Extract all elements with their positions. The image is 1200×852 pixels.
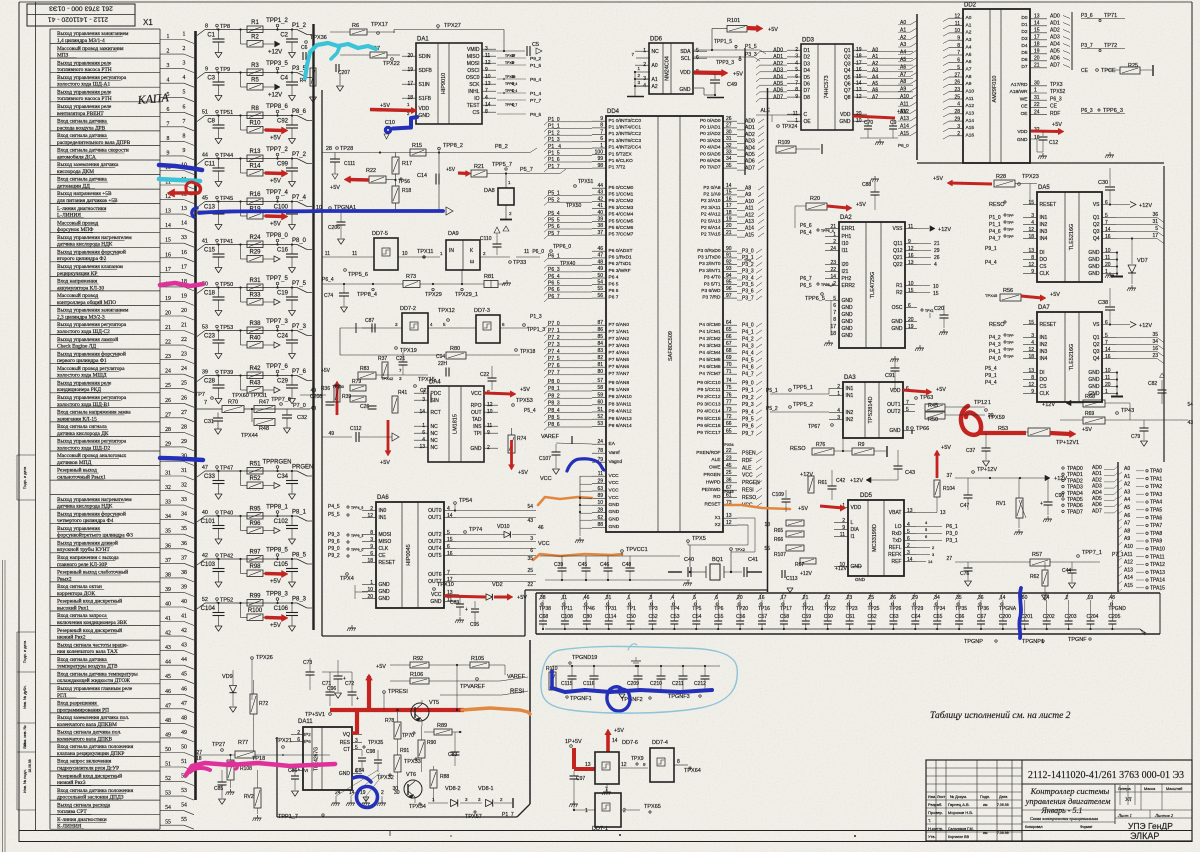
svg-text:9: 9 [1031, 269, 1034, 275]
svg-text:20: 20 [908, 317, 914, 323]
svg-text:VAREF: VAREF [541, 434, 560, 440]
svg-text:9: 9 [1031, 389, 1034, 395]
svg-text:1: 1 [1105, 269, 1108, 275]
svg-text:Q3: Q3 [844, 61, 851, 67]
svg-text:Q1: Q1 [844, 48, 851, 54]
svg-text:43: 43 [181, 643, 187, 649]
svg-text:6: 6 [1105, 200, 1108, 206]
svg-text:Q2: Q2 [1093, 222, 1100, 228]
svg-text:GND: GND [1088, 370, 1100, 376]
svg-text:TPA7: TPA7 [1150, 523, 1162, 529]
svg-text:TP26: TP26 [889, 606, 901, 612]
svg-text:P2 3/A11: P2 3/A11 [701, 205, 721, 211]
svg-text:25: 25 [954, 94, 960, 100]
svg-text:AD0: AD0 [745, 119, 755, 125]
svg-text:D4: D4 [1021, 43, 1027, 49]
IC DD6 NM24C04 [649, 43, 693, 94]
svg-text:P1_0: P1_0 [548, 117, 560, 123]
svg-text:VS: VS [1093, 322, 1100, 328]
svg-text:A2: A2 [966, 30, 972, 36]
svg-text:TPX60 TPX31: TPX60 TPX31 [232, 393, 267, 399]
svg-text:TPA12: TPA12 [1150, 562, 1165, 568]
svg-text:6: 6 [183, 104, 186, 110]
svg-text:P0 7/AD7: P0 7/AD7 [700, 165, 721, 171]
svg-text:12: 12 [954, 14, 960, 20]
svg-text:4: 4 [934, 262, 937, 268]
svg-text:P4 1/CM1: P4 1/CM1 [699, 329, 721, 335]
svg-text:TP16: TP16 [758, 606, 770, 612]
svg-text:+5V: +5V [733, 72, 743, 78]
ladder bus [312, 24, 314, 630]
svg-text:TPP7_6: TPP7_6 [266, 364, 288, 370]
svg-text:P1 5/T2EX: P1 5/T2EX [609, 151, 633, 157]
svg-text:P7_2: P7_2 [548, 335, 560, 341]
IC DA5 TLE5216G [1037, 192, 1102, 282]
RC filter group TP39 [197, 376, 205, 382]
svg-text:14: 14 [181, 221, 187, 227]
svg-text:P4_2: P4_2 [742, 337, 754, 343]
svg-text:R95: R95 [249, 507, 261, 513]
svg-text:TP31: TP31 [605, 606, 617, 612]
svg-text:P9 7/CC17: P9 7/CC17 [697, 430, 721, 436]
svg-text:VCC: VCC [609, 495, 620, 501]
svg-text:TPX29_1: TPX29_1 [455, 292, 478, 298]
svg-text:12: 12 [1028, 347, 1034, 353]
svg-text:P1_6: P1_6 [548, 157, 560, 163]
svg-text:P6 7: P6 7 [609, 295, 619, 301]
svg-text:I20: I20 [842, 262, 849, 268]
svg-text:P7_6: P7_6 [292, 369, 307, 375]
svg-text:C53: C53 [670, 614, 679, 620]
svg-text:A14: A14 [900, 124, 909, 130]
svg-text:P7_0: P7_0 [548, 321, 560, 327]
cyan marker row 11 [159, 179, 200, 181]
svg-text:TPX22: TPX22 [383, 61, 400, 67]
svg-text:RV2: RV2 [244, 794, 254, 800]
svg-text:Выход управления регулятора: Выход управления регулятора [57, 395, 127, 401]
svg-text:DD3: DD3 [802, 38, 815, 44]
svg-text:Массовый провод аналоговых: Массовый провод аналоговых [57, 452, 127, 459]
svg-text:TPX26: TPX26 [256, 655, 273, 661]
svg-text:TPX2: TPX2 [735, 547, 746, 552]
svg-text:TPP5_2: TPP5_2 [793, 402, 813, 408]
svg-text:TPX40: TPX40 [560, 261, 576, 267]
svg-text:PE/SWD: PE/SWD [702, 487, 721, 493]
svg-text:Контроллер системы: Контроллер системы [1030, 786, 1110, 796]
svg-text:P8 5/AN13: P8 5/AN13 [609, 416, 633, 422]
svg-text:C63: C63 [889, 614, 898, 620]
svg-text:TP33: TP33 [513, 260, 526, 266]
svg-text:51: 51 [181, 759, 187, 765]
svg-text:TPX65: TPX65 [644, 804, 661, 810]
svg-text:12: 12 [621, 762, 627, 768]
svg-text:C29: C29 [277, 379, 289, 385]
svg-text:TPX17: TPX17 [371, 22, 388, 28]
svg-text:Инв. № дубл.: Инв. № дубл. [23, 685, 27, 709]
svg-text:1: 1 [988, 400, 991, 406]
svg-text:A2: A2 [872, 61, 878, 67]
svg-text:PH2: PH2 [842, 276, 852, 282]
svg-text:43: 43 [165, 645, 171, 651]
svg-text:33: 33 [181, 235, 187, 241]
svg-text:AD4: AD4 [773, 74, 783, 80]
svg-text:P9_0: P9_0 [328, 546, 340, 552]
svg-text:C38: C38 [1098, 300, 1108, 306]
svg-text:C114: C114 [605, 614, 617, 620]
svg-text:40: 40 [181, 599, 187, 605]
svg-text:DA11: DA11 [298, 719, 313, 725]
svg-text:CT: CT [343, 747, 350, 753]
svg-text:A8: A8 [900, 79, 906, 85]
svg-text:P3 0/RxD0: P3 0/RxD0 [697, 248, 721, 254]
svg-text:TPP8_5: TPP8_5 [266, 548, 288, 554]
svg-text:9: 9 [957, 36, 960, 42]
svg-text:P6 1/RxD1: P6 1/RxD1 [609, 255, 633, 261]
svg-text:50: 50 [181, 745, 187, 751]
red marker row 12 with loop [172, 184, 200, 193]
svg-text:54: 54 [1187, 402, 1193, 408]
svg-text:R101: R101 [727, 18, 740, 24]
svg-text:20: 20 [988, 413, 994, 419]
svg-text:C22: C22 [480, 372, 489, 378]
svg-text:IN2: IN2 [1040, 342, 1048, 348]
svg-text:R77: R77 [238, 740, 248, 746]
svg-text:P6_4: P6_4 [322, 277, 334, 283]
svg-text:NC: NC [431, 445, 439, 451]
svg-text:TP53: TP53 [220, 325, 233, 331]
svg-text:TPA10: TPA10 [1150, 547, 1165, 553]
svg-text:Вход запрос включения: Вход запрос включения [57, 759, 112, 765]
svg-text:C10: C10 [385, 120, 395, 126]
svg-text:P6_7: P6_7 [548, 294, 560, 300]
svg-text:C28: C28 [204, 379, 216, 385]
svg-text:УПЭ ГенДР: УПЭ ГенДР [1128, 821, 1173, 831]
svg-text:P3_6: P3_6 [1081, 13, 1093, 19]
svg-text:11: 11 [840, 532, 845, 538]
svg-text:DA7: DA7 [1038, 305, 1050, 311]
svg-text:P4_4: P4_4 [742, 351, 754, 357]
svg-text:TP67: TP67 [808, 424, 820, 430]
svg-text:11: 11 [908, 224, 913, 230]
svg-text:R50: R50 [928, 417, 938, 423]
svg-text:HWPD: HWPD [706, 479, 721, 485]
svg-text:C61: C61 [846, 614, 855, 620]
svg-text:2: 2 [957, 131, 960, 137]
svg-text:P4_7: P4_7 [742, 372, 754, 378]
svg-text:L: L [851, 520, 854, 526]
svg-text:TPP3_5: TPP3_5 [266, 61, 288, 67]
svg-text:SCK: SCK [469, 82, 480, 88]
microcontroller DD4 SAF80C509 [606, 116, 723, 532]
svg-text:TPX42: TPX42 [381, 376, 394, 381]
svg-text:14: 14 [928, 559, 933, 564]
svg-text:TP6: TP6 [714, 606, 723, 612]
svg-text:AM29F010: AM29F010 [992, 76, 998, 103]
svg-text:Корчагин ВВ: Корчагин ВВ [948, 835, 970, 839]
svg-text:R79: R79 [352, 379, 361, 385]
svg-text:TPGND: TPGND [1108, 606, 1126, 612]
svg-text:6: 6 [447, 544, 450, 550]
svg-text:IP2: IP2 [304, 732, 311, 737]
svg-text:TP+5V1: TP+5V1 [305, 712, 325, 718]
svg-text:A12: A12 [745, 212, 754, 218]
svg-text:P5_1: P5_1 [766, 388, 778, 394]
svg-text:TPPRGEN: TPPRGEN [262, 460, 291, 466]
svg-text:PSEN/RDF: PSEN/RDF [696, 450, 720, 456]
svg-text:PRGEN: PRGEN [703, 472, 721, 478]
svg-text:R83: R83 [360, 366, 369, 372]
svg-text:RESO: RESO [989, 202, 1005, 208]
svg-text:P7_6: P7_6 [548, 363, 560, 369]
svg-text:2112 - 1411020 - 41: 2112 - 1411020 - 41 [48, 16, 108, 23]
svg-text:R109: R109 [778, 140, 790, 146]
svg-text:TPP9_0: TPP9_0 [351, 548, 363, 552]
svg-text:10: 10 [933, 284, 939, 290]
svg-text:TP39: TP39 [220, 370, 233, 376]
svg-text:2: 2 [837, 384, 840, 390]
svg-text:Выход заземления датчика пол.: Выход заземления датчика пол. [57, 715, 129, 721]
svg-text:+12V: +12V [938, 227, 951, 233]
svg-text:VCC: VCC [540, 476, 552, 482]
svg-text:P9 5/CC15: P9 5/CC15 [697, 416, 721, 422]
svg-text:P4_6: P4_6 [742, 365, 754, 371]
svg-text:48: 48 [181, 715, 187, 721]
svg-text:A7: A7 [900, 72, 906, 78]
svg-text:TPP1_2: TPP1_2 [266, 18, 288, 24]
svg-text:R51: R51 [249, 462, 261, 468]
svg-text:R36: R36 [321, 386, 330, 392]
svg-text:GND: GND [1088, 384, 1100, 390]
svg-text:RESET: RESET [1040, 202, 1057, 208]
svg-text:GND: GND [1088, 271, 1100, 277]
svg-text:TP20: TP20 [736, 606, 748, 612]
svg-text:RDF: RDF [1050, 111, 1060, 117]
svg-text:3: 3 [530, 536, 533, 542]
svg-text:AD3: AD3 [1092, 484, 1102, 490]
svg-text:A15: A15 [1124, 583, 1133, 589]
svg-text:VS: VS [1093, 202, 1100, 208]
svg-text:44: 44 [202, 153, 208, 159]
svg-text:TP45: TP45 [220, 196, 233, 202]
title block [926, 760, 1192, 841]
svg-text:C80: C80 [583, 614, 592, 620]
svg-text:TPGNA: TPGNA [999, 606, 1017, 612]
svg-text:GND: GND [1088, 264, 1100, 270]
svg-text:Вход сигнала датчика: Вход сигнала датчика [57, 177, 107, 183]
svg-text:A13: A13 [745, 219, 754, 225]
svg-text:48: 48 [165, 718, 171, 724]
svg-text:A1: A1 [872, 54, 878, 60]
svg-text:TPX23: TPX23 [1022, 174, 1039, 180]
svg-text:R24: R24 [249, 235, 261, 241]
svg-text:33: 33 [165, 500, 171, 506]
svg-text:C3: C3 [207, 76, 215, 82]
svg-text:TLE4267G: TLE4267G [314, 747, 320, 771]
svg-text:Разраб.: Разраб. [928, 802, 942, 807]
svg-text:TPX4: TPX4 [340, 576, 354, 582]
svg-text:3: 3 [650, 595, 653, 601]
svg-text:26: 26 [934, 255, 940, 261]
svg-text:Varef: Varef [609, 450, 621, 456]
svg-text:C56: C56 [736, 614, 745, 620]
svg-text:X2: X2 [715, 522, 721, 528]
svg-text:P5_2: P5_2 [766, 406, 778, 412]
svg-text:R16: R16 [249, 192, 261, 198]
svg-text:TPAD6: TPAD6 [1067, 503, 1083, 509]
svg-text:P6_6: P6_6 [548, 287, 560, 293]
IC DA7 TLE5216G [1037, 312, 1102, 402]
svg-text:+5V: +5V [270, 179, 281, 185]
svg-text:22H: 22H [438, 361, 448, 367]
svg-text:MISO: MISO [467, 54, 480, 60]
svg-text:P4 7/CM7: P4 7/CM7 [699, 371, 721, 377]
svg-text:D3: D3 [804, 61, 811, 67]
svg-text:35: 35 [165, 529, 171, 535]
resistor R7 [370, 52, 387, 58]
svg-text:42: 42 [202, 553, 208, 559]
svg-text:Выход управления главным реле: Выход управления главным реле [57, 686, 133, 692]
svg-text:C82: C82 [1148, 381, 1157, 387]
svg-text:P9_7: P9_7 [742, 431, 754, 437]
svg-text:IN4: IN4 [1040, 236, 1048, 242]
svg-text:P8_2: P8_2 [495, 144, 508, 150]
svg-text:TPX64: TPX64 [684, 768, 701, 774]
svg-text:P9 0/CC10: P9 0/CC10 [697, 380, 721, 386]
svg-text:Январь - 5.1: Январь - 5.1 [1041, 806, 1083, 815]
svg-text:C116: C116 [583, 681, 595, 687]
svg-text:P0 1/AD1: P0 1/AD1 [700, 125, 721, 131]
svg-text:C18: C18 [204, 291, 216, 297]
svg-text:A6: A6 [872, 88, 878, 94]
svg-text:5: 5 [693, 595, 696, 601]
svg-text:Масштаб: Масштаб [1166, 787, 1183, 791]
svg-text:TPX: TPX [744, 259, 752, 263]
svg-text:S1FB: S1FB [419, 96, 432, 102]
svg-text:X1: X1 [143, 18, 153, 27]
svg-text:CLK: CLK [1040, 271, 1050, 277]
svg-text:C105: C105 [274, 562, 289, 568]
svg-text:NC: NC [652, 49, 660, 55]
svg-text:P5_4: P5_4 [985, 366, 997, 372]
IC DA4 LM1815 [428, 386, 484, 462]
svg-text:P2 5/A13: P2 5/A13 [701, 218, 721, 224]
svg-text:A4: A4 [900, 50, 906, 56]
svg-text:D5: D5 [804, 75, 811, 81]
svg-text:A13: A13 [966, 111, 975, 117]
svg-text:P3 7/RD: P3 7/RD [702, 295, 721, 301]
svg-text:VCC: VCC [538, 541, 550, 547]
svg-text:20: 20 [165, 311, 171, 317]
svg-text:DA1: DA1 [417, 37, 429, 43]
svg-text:27: 27 [946, 556, 952, 562]
svg-text:AD2: AD2 [773, 61, 783, 67]
svg-text:TP40: TP40 [220, 511, 233, 517]
svg-text:RES: RES [340, 740, 351, 746]
svg-text:42: 42 [181, 628, 187, 634]
svg-text:Q4: Q4 [844, 68, 851, 74]
svg-text:DD7-2: DD7-2 [400, 306, 416, 312]
svg-text:D5: D5 [1021, 50, 1027, 56]
svg-text:D7: D7 [804, 88, 811, 94]
svg-text:10: 10 [954, 28, 960, 34]
svg-text:AD1: AD1 [745, 125, 755, 131]
svg-text:TLE4729G: TLE4729G [870, 272, 876, 299]
svg-text:P5_5: P5_5 [548, 218, 560, 224]
svg-text:CE: CE [1081, 68, 1089, 74]
svg-text:DD7-4: DD7-4 [652, 740, 668, 746]
svg-text:47: 47 [202, 465, 208, 471]
svg-text:C70: C70 [864, 120, 873, 126]
blue marker TRGNA vertical [1019, 588, 1021, 638]
svg-text:R56: R56 [1003, 288, 1013, 294]
svg-text:TP46: TP46 [583, 606, 595, 612]
svg-text:R68: R68 [1085, 394, 1095, 400]
address bus to DD2 [916, 14, 918, 160]
svg-text:GND: GND [379, 582, 391, 588]
svg-text:GND: GND [842, 319, 854, 325]
svg-text:TPA13: TPA13 [1150, 570, 1165, 576]
svg-text:27: 27 [181, 410, 187, 416]
svg-text:A2: A2 [652, 84, 658, 90]
svg-text:Выход управления форсункой: Выход управления форсункой [57, 510, 126, 517]
svg-text:+5V: +5V [518, 470, 528, 476]
svg-text:P6 0/ADST: P6 0/ADST [609, 248, 633, 254]
svg-text:TPA1: TPA1 [1150, 476, 1162, 482]
svg-text:C37: C37 [966, 448, 975, 454]
svg-text:ALE: ALE [742, 465, 752, 471]
svg-text:TPP4_5: TPP4_5 [351, 506, 363, 510]
svg-text:17: 17 [165, 267, 171, 273]
svg-text:L-линия диагностики: L-линия диагностики [57, 206, 106, 212]
svg-text:6: 6 [957, 58, 960, 64]
svg-text:29: 29 [934, 248, 940, 254]
svg-text:17: 17 [1152, 233, 1158, 239]
svg-text:A9: A9 [745, 192, 751, 198]
svg-text:TPX57: TPX57 [465, 814, 482, 820]
svg-text:P4_0: P4_0 [989, 356, 1001, 362]
svg-text:P2 1/A9: P2 1/A9 [703, 192, 720, 198]
svg-text:P4_5: P4_5 [742, 358, 754, 364]
svg-text:TPA3: TPA3 [1150, 492, 1162, 498]
svg-text:TPP1_7: TPP1_7 [278, 814, 298, 820]
svg-text:OUT5: OUT5 [428, 553, 442, 559]
svg-text:11: 11 [1105, 255, 1110, 261]
svg-text:AD7: AD7 [745, 165, 755, 171]
svg-text:P0 2/AD2: P0 2/AD2 [700, 131, 721, 137]
svg-text:Формат: Формат [1080, 825, 1093, 829]
svg-text:35: 35 [1152, 332, 1158, 338]
svg-text:P1 7/T2: P1 7/T2 [609, 165, 626, 171]
svg-text:3: 3 [837, 415, 840, 421]
svg-text:TP28: TP28 [340, 146, 353, 152]
svg-text:C72: C72 [345, 681, 354, 687]
svg-text:A13: A13 [1124, 567, 1133, 573]
svg-text:5: 5 [447, 530, 450, 536]
svg-text:16: 16 [447, 551, 453, 557]
svg-text:GND: GND [842, 298, 854, 304]
svg-text:X1: X1 [715, 515, 721, 521]
svg-text:P7 4/AN4: P7 4/AN4 [609, 350, 630, 356]
svg-text:RESET: RESET [705, 502, 721, 508]
svg-text:C1: C1 [207, 33, 215, 39]
svg-text:TPX27: TPX27 [444, 23, 461, 29]
svg-text:A15: A15 [966, 125, 975, 131]
svg-text:DD7-5: DD7-5 [372, 231, 388, 237]
svg-text:20: 20 [1105, 382, 1111, 388]
svg-text:TPP1_4: TPP1_4 [505, 89, 517, 93]
svg-text:TP43: TP43 [1121, 408, 1134, 414]
svg-text:VCC: VCC [609, 473, 620, 479]
